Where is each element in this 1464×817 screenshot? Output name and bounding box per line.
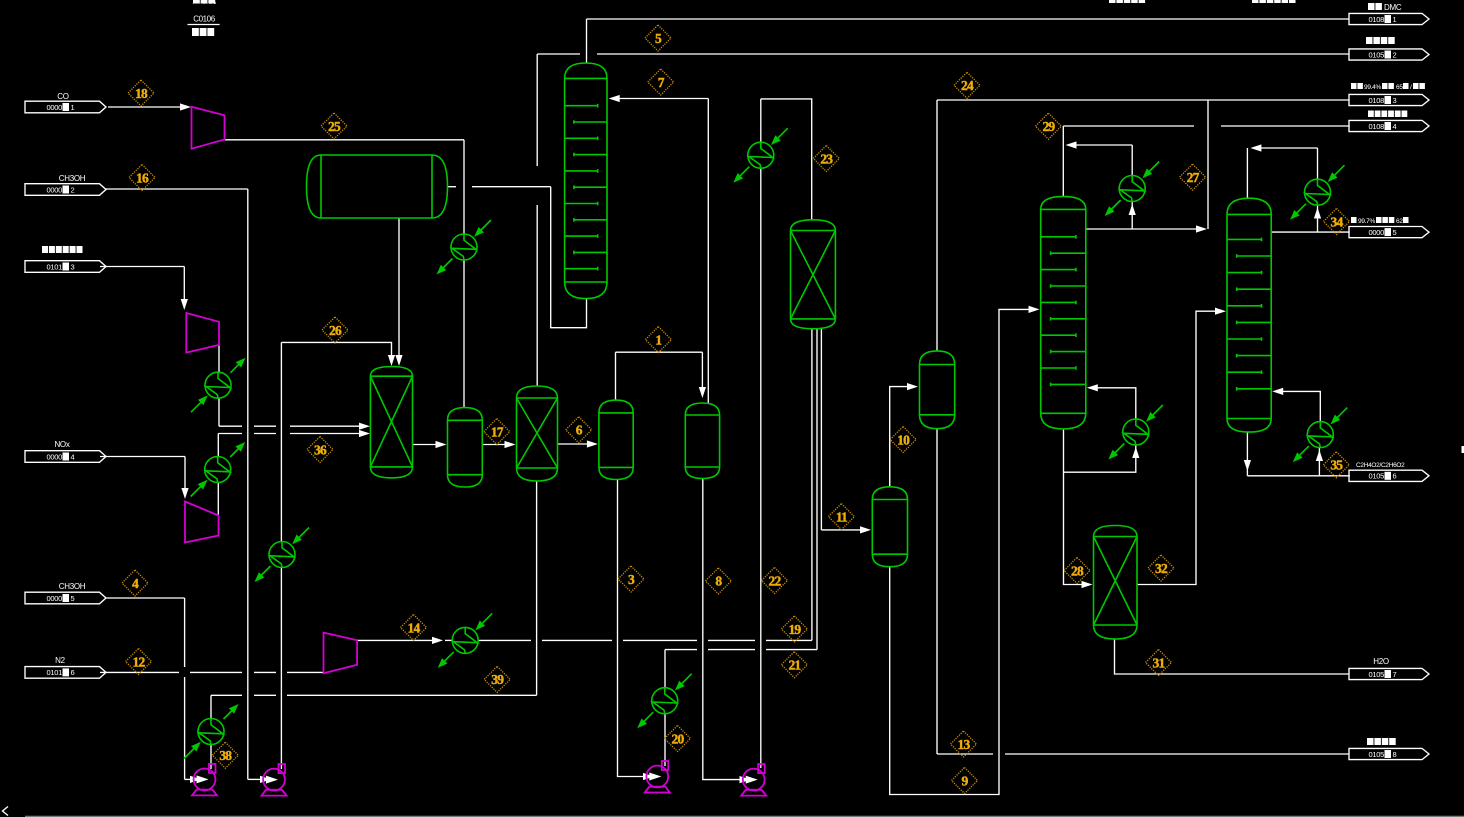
svg-text:CH3OH: CH3OH bbox=[59, 174, 86, 183]
svg-text:6: 6 bbox=[1393, 472, 1397, 481]
svg-text:31: 31 bbox=[1153, 655, 1166, 670]
svg-text:13: 13 bbox=[958, 737, 971, 752]
svg-text:8: 8 bbox=[715, 574, 722, 589]
svg-text:0108: 0108 bbox=[1369, 122, 1385, 131]
svg-text:16: 16 bbox=[136, 170, 149, 185]
svg-text:5: 5 bbox=[655, 31, 662, 46]
svg-text:DMC: DMC bbox=[1384, 3, 1402, 12]
svg-text:9: 9 bbox=[962, 773, 969, 788]
svg-text:1: 1 bbox=[71, 103, 75, 112]
svg-text:NOx: NOx bbox=[54, 440, 69, 449]
svg-text:99.4%: 99.4% bbox=[1364, 84, 1381, 91]
svg-text:0105: 0105 bbox=[1369, 670, 1385, 679]
svg-text:39: 39 bbox=[491, 672, 504, 687]
svg-text:0000: 0000 bbox=[47, 594, 63, 603]
svg-text:5: 5 bbox=[71, 594, 75, 603]
svg-text:0108: 0108 bbox=[1369, 15, 1385, 24]
svg-text:17: 17 bbox=[491, 424, 504, 439]
svg-text:20: 20 bbox=[672, 731, 685, 746]
svg-text:4: 4 bbox=[132, 576, 139, 591]
svg-text:N2: N2 bbox=[55, 656, 65, 665]
svg-text:27: 27 bbox=[1187, 170, 1200, 185]
svg-text:10: 10 bbox=[897, 432, 910, 447]
svg-text:7: 7 bbox=[658, 75, 665, 90]
svg-text:C0106: C0106 bbox=[193, 15, 216, 24]
svg-text:8: 8 bbox=[1393, 750, 1397, 759]
svg-text:H2O: H2O bbox=[1373, 657, 1389, 666]
svg-text:25: 25 bbox=[328, 119, 341, 134]
svg-text:23: 23 bbox=[820, 151, 833, 166]
svg-text:62: 62 bbox=[1396, 218, 1403, 225]
svg-text:5: 5 bbox=[1393, 228, 1397, 237]
svg-text:99.7%: 99.7% bbox=[1358, 218, 1375, 225]
svg-text:0000: 0000 bbox=[47, 185, 63, 194]
svg-text:CO: CO bbox=[57, 92, 68, 101]
svg-text:18: 18 bbox=[135, 86, 148, 101]
svg-text:19: 19 bbox=[788, 622, 801, 637]
svg-text:21: 21 bbox=[788, 658, 801, 673]
svg-text:4: 4 bbox=[71, 452, 75, 461]
svg-text:32: 32 bbox=[1155, 561, 1168, 576]
svg-text:4: 4 bbox=[1393, 122, 1397, 131]
svg-text:C2H4O2/C2H6O2: C2H4O2/C2H6O2 bbox=[1356, 462, 1405, 469]
svg-text:28: 28 bbox=[1071, 563, 1084, 578]
svg-text:0000: 0000 bbox=[47, 452, 63, 461]
svg-text:0108: 0108 bbox=[1369, 96, 1385, 105]
svg-text:24: 24 bbox=[961, 78, 974, 93]
svg-text:0105: 0105 bbox=[1369, 472, 1385, 481]
svg-text:35: 35 bbox=[1330, 458, 1343, 473]
svg-text:14: 14 bbox=[408, 620, 421, 635]
svg-text:0000: 0000 bbox=[1369, 228, 1385, 237]
svg-text:3: 3 bbox=[628, 572, 635, 587]
svg-text:65: 65 bbox=[1396, 84, 1403, 91]
svg-text:22: 22 bbox=[769, 573, 782, 588]
svg-text:29: 29 bbox=[1042, 119, 1055, 134]
svg-text:26: 26 bbox=[329, 323, 342, 338]
svg-text:0105: 0105 bbox=[1369, 750, 1385, 759]
svg-text:38: 38 bbox=[219, 748, 232, 763]
svg-text:3: 3 bbox=[71, 262, 75, 271]
svg-text:0101: 0101 bbox=[47, 668, 63, 677]
svg-text:12: 12 bbox=[133, 654, 146, 669]
svg-text:1: 1 bbox=[655, 332, 662, 347]
svg-text:6: 6 bbox=[71, 668, 75, 677]
svg-text:0101: 0101 bbox=[47, 262, 63, 271]
svg-text:2: 2 bbox=[1393, 50, 1397, 59]
svg-text:2: 2 bbox=[71, 185, 75, 194]
svg-text:0105: 0105 bbox=[1369, 50, 1385, 59]
svg-text:CH3OH: CH3OH bbox=[59, 582, 86, 591]
svg-text:1: 1 bbox=[1393, 15, 1397, 24]
svg-text:6: 6 bbox=[576, 423, 583, 438]
svg-text:11: 11 bbox=[836, 509, 848, 524]
svg-text:36: 36 bbox=[314, 442, 327, 457]
svg-text:34: 34 bbox=[1331, 214, 1344, 229]
svg-text:0000: 0000 bbox=[47, 103, 63, 112]
svg-text:3: 3 bbox=[1393, 96, 1397, 105]
svg-text:7: 7 bbox=[1393, 670, 1397, 679]
